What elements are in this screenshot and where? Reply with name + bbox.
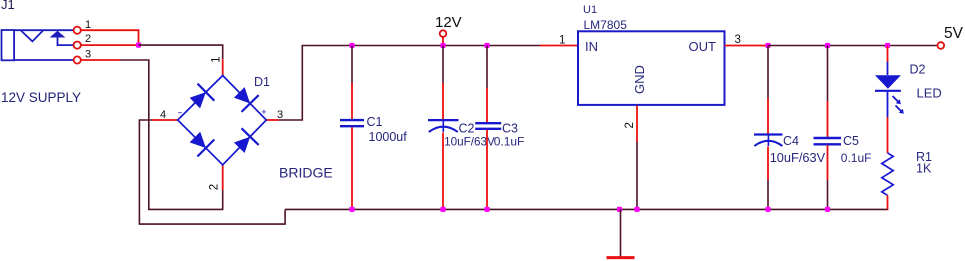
svg-text:D2: D2 bbox=[910, 63, 926, 77]
wire J1 pin1 to junction bbox=[81, 30, 139, 45]
svg-text:12V SUPPLY: 12V SUPPLY bbox=[1, 90, 81, 105]
wire J1 pin3 to bridge bottom bbox=[120, 60, 223, 209]
resistor R1 bbox=[882, 153, 893, 210]
regulator U1 bbox=[578, 4, 725, 105]
wire U1 pin1 red bbox=[540, 45, 578, 47]
svg-text:C3: C3 bbox=[502, 122, 518, 136]
junction dot U1 pin2 bbox=[634, 207, 639, 212]
svg-text:C2: C2 bbox=[459, 122, 475, 136]
svg-text:GND: GND bbox=[632, 65, 647, 94]
bridge diode left-bottom bbox=[190, 132, 215, 157]
bridge minus mark bbox=[178, 112, 182, 114]
svg-text:1K: 1K bbox=[916, 162, 932, 176]
svg-text:3: 3 bbox=[85, 49, 91, 61]
junction dot C2 top bbox=[440, 43, 445, 48]
J1 pin 2 circle bbox=[74, 42, 81, 49]
svg-text:1000uf: 1000uf bbox=[369, 130, 408, 144]
junction dot C4 bottom bbox=[765, 207, 770, 212]
svg-text:2: 2 bbox=[624, 122, 636, 128]
svg-text:1: 1 bbox=[559, 35, 565, 47]
connector J1 bbox=[1, 0, 74, 60]
bridge diode top-right bbox=[234, 87, 259, 112]
svg-text:1: 1 bbox=[85, 19, 91, 31]
wire U1 pin2 to ground rail bbox=[636, 142, 638, 209]
wire junction to bridge top bbox=[139, 45, 223, 59]
junction dot C5 bottom bbox=[825, 207, 830, 212]
svg-text:1: 1 bbox=[211, 56, 223, 62]
svg-text:10uF/63V: 10uF/63V bbox=[770, 150, 826, 165]
bridge plus mark bbox=[262, 110, 266, 114]
svg-text:U1: U1 bbox=[583, 4, 597, 16]
junction dot C1 top bbox=[349, 43, 354, 48]
svg-text:2: 2 bbox=[208, 184, 220, 190]
wire stub bridge pin3 bbox=[266, 119, 278, 121]
capacitor C2 bbox=[428, 46, 459, 210]
ground bbox=[607, 209, 635, 257]
J1 pin 1 circle bbox=[74, 27, 81, 34]
junction dot C5 top bbox=[825, 43, 830, 48]
wire bridge pin3 to top rail bbox=[279, 46, 540, 121]
diode bridge D1 bbox=[178, 76, 267, 165]
bridge diode left-top bbox=[190, 84, 215, 109]
svg-text:BRIDGE: BRIDGE bbox=[279, 165, 333, 181]
svg-text:C4: C4 bbox=[783, 134, 799, 148]
node 5V bbox=[938, 25, 964, 49]
svg-text:12V: 12V bbox=[435, 14, 462, 31]
junction dot D2 top bbox=[885, 43, 890, 48]
capacitor C3 bbox=[475, 46, 501, 210]
wire stub bridge pin2 bbox=[222, 165, 224, 190]
svg-text:C5: C5 bbox=[843, 134, 859, 148]
svg-text:C1: C1 bbox=[367, 115, 383, 129]
svg-text:IN: IN bbox=[585, 39, 598, 54]
svg-text:4: 4 bbox=[160, 109, 166, 121]
junction dot C4 top bbox=[765, 43, 770, 48]
J1 pin 3 circle bbox=[74, 56, 81, 63]
svg-text:0.1uF: 0.1uF bbox=[841, 151, 872, 165]
svg-text:2: 2 bbox=[85, 33, 91, 45]
junction dot ground stem bbox=[617, 207, 622, 212]
wire top rail right bbox=[768, 45, 938, 47]
svg-text:J1: J1 bbox=[1, 0, 15, 12]
LED D2 bbox=[875, 46, 904, 153]
svg-text:0.1uF: 0.1uF bbox=[494, 135, 525, 149]
svg-text:5V: 5V bbox=[944, 25, 964, 42]
svg-text:LM7805: LM7805 bbox=[584, 18, 628, 32]
wire stub bridge pin1 bbox=[222, 59, 224, 75]
junction dot C1 bottom bbox=[349, 207, 354, 212]
junction dot C2 bottom bbox=[440, 207, 445, 212]
wire bridge pin4 to ground rail bbox=[139, 120, 285, 224]
svg-text:OUT: OUT bbox=[689, 39, 717, 54]
wire U1 pin3 red bbox=[725, 45, 769, 47]
svg-text:LED: LED bbox=[917, 86, 942, 101]
svg-text:D1: D1 bbox=[254, 75, 270, 89]
wire stub bridge pin4 bbox=[152, 119, 178, 121]
ground rail wire bbox=[285, 208, 888, 210]
junction dot pins 1-2 bbox=[136, 43, 141, 48]
junction dot C3 top bbox=[484, 43, 489, 48]
capacitor C4 bbox=[754, 46, 783, 210]
wire J1 pin2 to junction bbox=[81, 44, 139, 46]
bridge diode bottom-right bbox=[234, 128, 259, 153]
node 12V bbox=[435, 14, 462, 45]
junction dot C3 bottom bbox=[484, 207, 489, 212]
capacitor C1 bbox=[340, 46, 364, 210]
svg-text:3: 3 bbox=[735, 34, 741, 46]
wire U1 pin2 red bbox=[636, 106, 638, 143]
capacitor C5 bbox=[814, 46, 842, 210]
wire J1 pin3 red bbox=[81, 59, 120, 61]
